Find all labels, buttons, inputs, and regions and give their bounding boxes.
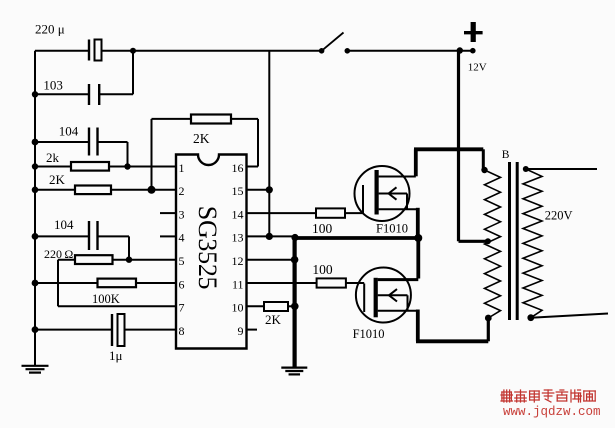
svg-text:4: 4 — [179, 231, 185, 245]
svg-text:14: 14 — [232, 207, 244, 221]
svg-text:11: 11 — [232, 277, 244, 291]
svg-text:104: 104 — [59, 124, 79, 139]
svg-text:8: 8 — [179, 324, 185, 338]
svg-text:3: 3 — [179, 207, 185, 221]
svg-text:SG3525: SG3525 — [193, 206, 222, 289]
svg-text:220 Ω: 220 Ω — [44, 247, 73, 261]
svg-text:2K: 2K — [49, 172, 66, 187]
svg-text:15: 15 — [232, 184, 244, 198]
svg-text:F1010: F1010 — [353, 327, 385, 341]
svg-text:12: 12 — [232, 254, 244, 268]
svg-text:10: 10 — [232, 301, 244, 315]
svg-text:F1010: F1010 — [376, 222, 408, 236]
svg-text:5: 5 — [179, 254, 185, 268]
svg-text:6: 6 — [179, 277, 185, 291]
svg-text:2: 2 — [179, 184, 185, 198]
svg-text:100: 100 — [312, 221, 333, 236]
svg-text:7: 7 — [179, 301, 185, 315]
svg-text:www.jqdzw.com: www.jqdzw.com — [503, 405, 601, 419]
svg-text:2k: 2k — [46, 150, 60, 165]
svg-text:100: 100 — [312, 262, 333, 277]
svg-text:104: 104 — [54, 217, 74, 232]
svg-text:12V: 12V — [468, 62, 487, 74]
svg-text:100K: 100K — [92, 292, 120, 306]
svg-text:9: 9 — [238, 324, 244, 338]
svg-text:16: 16 — [232, 161, 244, 175]
svg-text:1: 1 — [179, 161, 185, 175]
svg-text:220 μ: 220 μ — [35, 22, 65, 37]
svg-text:13: 13 — [232, 231, 244, 245]
svg-text:2K: 2K — [265, 312, 282, 327]
svg-text:103: 103 — [43, 78, 63, 93]
svg-text:220V: 220V — [545, 209, 573, 223]
svg-text:1μ: 1μ — [109, 348, 123, 363]
svg-text:2K: 2K — [193, 131, 210, 146]
svg-text:B: B — [502, 149, 510, 161]
